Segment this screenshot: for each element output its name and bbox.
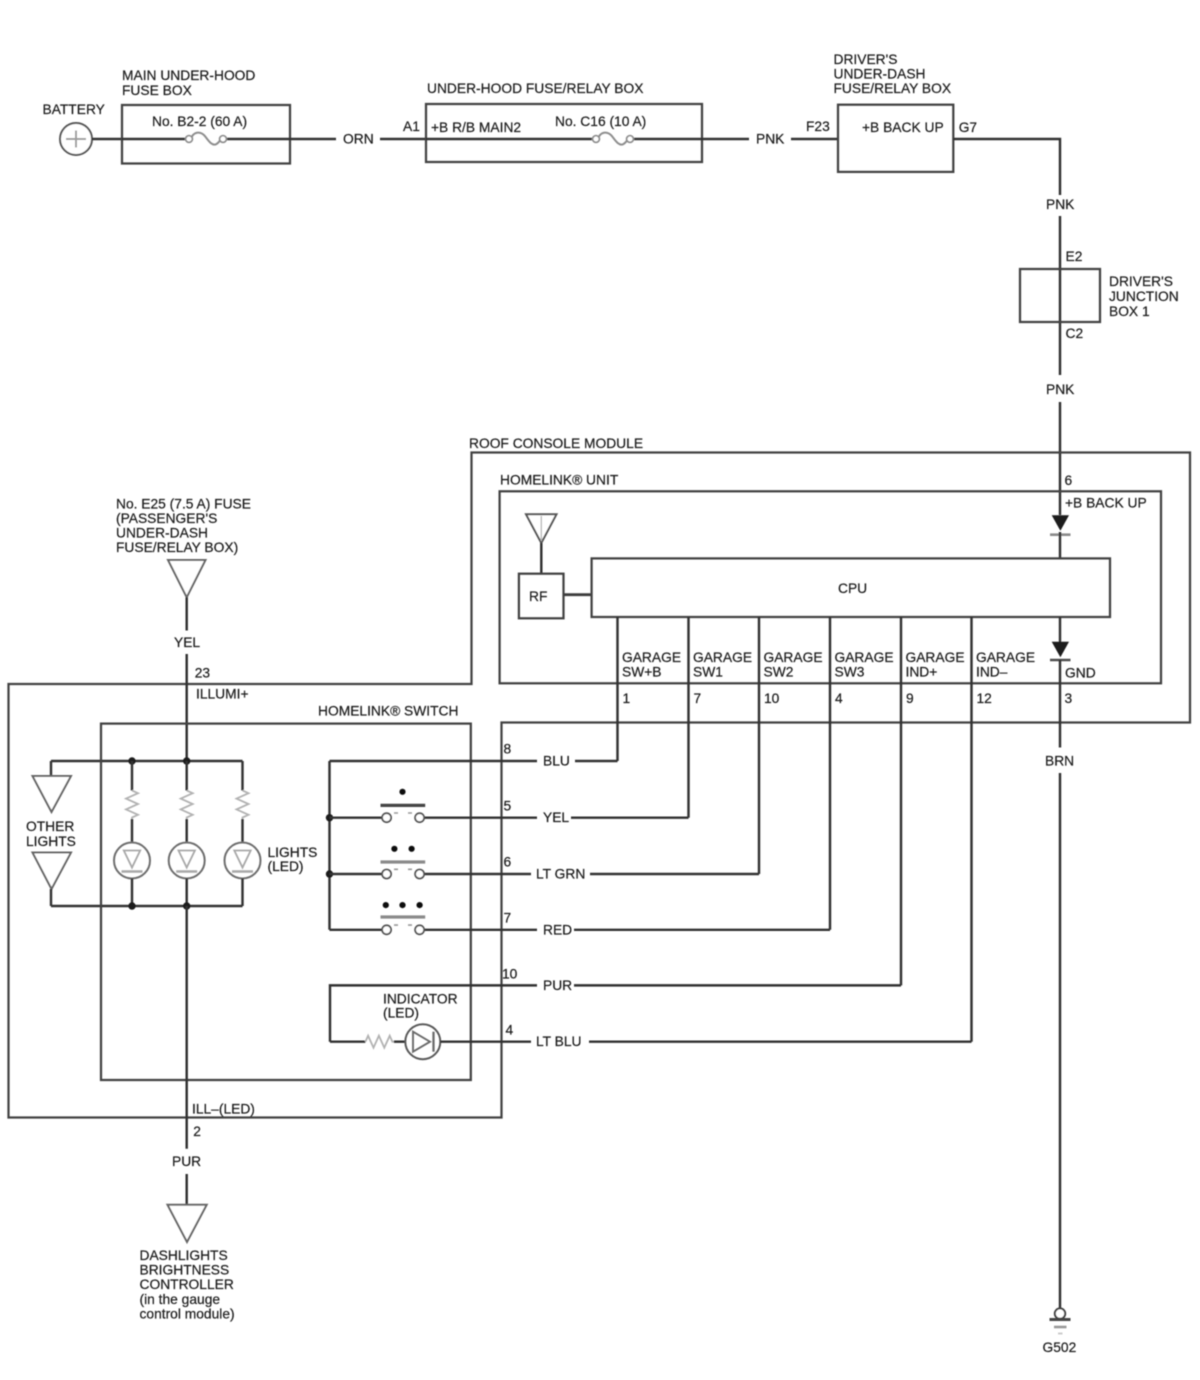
diode D1 [1050, 515, 1071, 558]
svg-text:+B BACK UP: +B BACK UP [862, 120, 944, 135]
fuse No. C16 (10 A) [426, 133, 702, 145]
svg-text:6: 6 [504, 855, 512, 870]
pin wire garage sw1 [687, 617, 689, 818]
svg-text:ILL–(LED): ILL–(LED) [192, 1102, 255, 1117]
svg-text:ROOF CONSOLE MODULE: ROOF CONSOLE MODULE [469, 436, 643, 451]
led indicator [394, 1024, 531, 1059]
svg-text:DRIVER'S: DRIVER'S [834, 52, 898, 67]
wire PNK vertical [1046, 197, 1082, 375]
svg-text:(LED): (LED) [268, 859, 304, 874]
svg-text:23: 23 [195, 666, 211, 681]
led L1 [114, 819, 150, 906]
svg-text:A1: A1 [403, 119, 420, 134]
svg-text:YEL: YEL [543, 810, 569, 825]
svg-text:BOX 1: BOX 1 [1109, 304, 1150, 319]
antenna [526, 514, 557, 574]
svg-text:ORN: ORN [343, 132, 374, 147]
svg-text:DASHLIGHTS: DASHLIGHTS [140, 1248, 228, 1263]
svg-text:CONTROLLER: CONTROLLER [140, 1277, 234, 1292]
svg-text:10: 10 [502, 967, 518, 982]
svg-text:GARAGE: GARAGE [764, 650, 823, 665]
svg-text:GARAGE: GARAGE [835, 650, 894, 665]
svg-text:E2: E2 [1066, 249, 1083, 264]
indicator feed wire [330, 985, 537, 1041]
svg-text:GND: GND [1065, 666, 1096, 681]
node bottom rail / led1 [128, 902, 135, 909]
wire ORN [290, 132, 426, 147]
svg-text:No. E25 (7.5 A) FUSE: No. E25 (7.5 A) FUSE [116, 497, 251, 512]
svg-text:LIGHTS: LIGHTS [268, 845, 318, 860]
main under-hood fuse box [122, 68, 290, 164]
resistor R3 [237, 761, 249, 819]
svg-text:No. B2-2 (60 A): No. B2-2 (60 A) [152, 114, 247, 129]
svg-text:BLU: BLU [543, 754, 570, 769]
wire PNK below junction box [1046, 382, 1075, 515]
svg-text:ILLUMI+: ILLUMI+ [196, 687, 249, 702]
illumination top rail [51, 760, 243, 762]
pin 6 +B BACK UP [1065, 473, 1147, 511]
svg-text:7: 7 [694, 691, 702, 706]
switch SW3 [330, 902, 538, 934]
diode D2 GND [1050, 617, 1096, 723]
svg-text:5: 5 [504, 799, 512, 814]
roof console module box [9, 436, 1191, 1118]
svg-text:LIGHTS: LIGHTS [26, 834, 76, 849]
battery [43, 102, 105, 155]
svg-text:FUSE/RELAY BOX: FUSE/RELAY BOX [834, 81, 952, 96]
svg-text:FUSE BOX: FUSE BOX [122, 83, 192, 98]
pin wire garage sw+b [616, 617, 618, 761]
pin label garage sw3 pin 4 [835, 650, 894, 706]
svg-text:F23: F23 [806, 119, 830, 134]
svg-text:PNK: PNK [756, 132, 785, 147]
switch bus wire [328, 761, 330, 930]
svg-text:HOMELINK® SWITCH: HOMELINK® SWITCH [318, 704, 458, 719]
svg-text:RF: RF [529, 589, 547, 604]
svg-text:SW2: SW2 [764, 665, 794, 680]
pin wire garage ind+ [900, 617, 902, 985]
svg-text:1: 1 [623, 691, 631, 706]
svg-text:PNK: PNK [1046, 382, 1075, 397]
svg-text:INDICATOR: INDICATOR [383, 992, 458, 1007]
svg-text:YEL: YEL [174, 635, 200, 650]
resistor R4 [330, 1036, 394, 1048]
svg-text:MAIN UNDER-HOOD: MAIN UNDER-HOOD [122, 68, 255, 83]
node bus sw1 [326, 814, 333, 821]
svg-text:12: 12 [977, 691, 992, 706]
pin label garage ind- pin 12 [976, 650, 1035, 706]
svg-text:4: 4 [506, 1023, 514, 1038]
svg-text:SW3: SW3 [835, 665, 865, 680]
svg-text:BRN: BRN [1045, 754, 1074, 769]
svg-text:OTHER: OTHER [26, 819, 74, 834]
pin wire garage sw3 [829, 617, 831, 930]
switch SW2 [330, 846, 532, 879]
wire RED row pin 7 [504, 911, 831, 938]
svg-text:G7: G7 [959, 120, 977, 135]
connector triangle to dashlights controller [168, 1205, 207, 1242]
svg-text:FUSE/RELAY BOX): FUSE/RELAY BOX) [116, 540, 238, 555]
wire PNK [702, 119, 838, 147]
svg-text:PUR: PUR [543, 978, 572, 993]
svg-text:IND–: IND– [976, 665, 1008, 680]
pin label garage sw1 pin 7 [693, 650, 752, 706]
svg-text:GARAGE: GARAGE [693, 650, 752, 665]
svg-text:RED: RED [543, 923, 572, 938]
svg-text:(LED): (LED) [383, 1006, 419, 1021]
led L3 [225, 819, 261, 906]
svg-text:GARAGE: GARAGE [906, 650, 965, 665]
CPU [592, 558, 1110, 617]
svg-text:G502: G502 [1043, 1340, 1077, 1355]
svg-text:4: 4 [835, 691, 843, 706]
wire battery to main fuse box [92, 138, 122, 140]
svg-text:GARAGE: GARAGE [976, 650, 1035, 665]
svg-text:BATTERY: BATTERY [43, 102, 105, 117]
pin label garage sw2 pin 10 [764, 650, 823, 706]
wire from G7 to corner [953, 139, 1060, 195]
illumination bottom rail [51, 905, 243, 907]
resistor R1 [126, 761, 138, 819]
wire YEL [174, 597, 249, 761]
other lights connector triangle lower [33, 853, 72, 890]
wire from lower triangle [50, 889, 52, 906]
svg-text:control module): control module) [140, 1307, 235, 1322]
svg-text:LT BLU: LT BLU [536, 1034, 582, 1049]
wire BLU row pin 8 [330, 742, 618, 769]
svg-text:2: 2 [193, 1124, 201, 1139]
svg-text:C2: C2 [1066, 326, 1084, 341]
connector triangle from E25 fuse [168, 560, 206, 597]
svg-text:6: 6 [1065, 473, 1073, 488]
svg-text:LT GRN: LT GRN [536, 867, 585, 882]
wire ILL-(LED) [187, 906, 255, 1149]
dashlights brightness controller label [140, 1248, 235, 1322]
svg-text:UNDER-DASH: UNDER-DASH [116, 526, 208, 541]
wire to other lights [50, 761, 52, 776]
svg-text:UNDER-HOOD FUSE/RELAY BOX: UNDER-HOOD FUSE/RELAY BOX [427, 81, 643, 96]
svg-text:UNDER-DASH: UNDER-DASH [834, 67, 926, 82]
svg-text:10: 10 [764, 691, 780, 706]
svg-text:9: 9 [906, 691, 914, 706]
pin label garage sw+b pin 1 [622, 650, 681, 706]
node top rail / illumi+ [183, 757, 190, 764]
svg-text:CPU: CPU [838, 581, 867, 596]
svg-text:BRIGHTNESS: BRIGHTNESS [140, 1263, 230, 1278]
svg-text:(in the gauge: (in the gauge [140, 1292, 221, 1307]
wire PUR to dashlights controller [172, 1154, 201, 1205]
svg-text:8: 8 [504, 742, 512, 757]
svg-text:SW+B: SW+B [622, 665, 661, 680]
lights (led) label [268, 845, 318, 874]
svg-text:No. C16 (10 A): No. C16 (10 A) [555, 114, 646, 129]
ground G502 [1043, 1308, 1077, 1355]
svg-text:SW1: SW1 [693, 665, 723, 680]
resistor R2 [181, 761, 193, 819]
RF unit [519, 574, 564, 619]
other lights connector triangle upper [33, 776, 72, 812]
under-hood fuse/relay box [403, 81, 702, 162]
svg-text:PUR: PUR [172, 1154, 201, 1169]
svg-text:+B BACK UP: +B BACK UP [1065, 496, 1147, 511]
node top rail / led1 [128, 757, 135, 764]
wire LT GRN row pin 6 [504, 855, 760, 882]
wire LT BLU row pin 4 [506, 1023, 972, 1050]
node bottom rail / ill- [183, 902, 190, 909]
svg-text:JUNCTION: JUNCTION [1109, 289, 1179, 304]
led L2 [169, 819, 205, 906]
homelink switch box [101, 704, 471, 1081]
svg-text:GARAGE: GARAGE [622, 650, 681, 665]
svg-text:DRIVER'S: DRIVER'S [1109, 274, 1173, 289]
svg-text:3: 3 [1065, 691, 1073, 706]
wire YEL row pin 5 [504, 799, 689, 826]
svg-text:+B R/B MAIN2: +B R/B MAIN2 [431, 120, 521, 135]
fuse E25 label [116, 497, 251, 556]
driver's junction box 1 [1020, 269, 1179, 341]
wire RF to CPU [564, 593, 592, 596]
fuse No. B2-2 (60 A) [122, 133, 290, 145]
indicator label [383, 992, 458, 1021]
wire PUR row pin 10 [502, 967, 901, 994]
svg-text:7: 7 [504, 911, 512, 926]
pin label garage ind+ pin 9 [906, 650, 965, 706]
other lights label [26, 819, 76, 849]
driver's under-dash fuse/relay box [834, 52, 978, 172]
svg-text:(PASSENGER'S: (PASSENGER'S [116, 511, 217, 526]
wire BRN to ground [1045, 723, 1074, 1310]
svg-text:IND+: IND+ [906, 665, 938, 680]
svg-text:HOMELINK® UNIT: HOMELINK® UNIT [500, 473, 619, 488]
switch SW1 [330, 789, 538, 823]
homelink unit box [500, 473, 1161, 684]
node bus sw2 [326, 870, 333, 877]
svg-text:PNK: PNK [1046, 197, 1075, 212]
pin wire garage sw2 [758, 617, 760, 874]
pin wire garage ind- [970, 617, 972, 1042]
